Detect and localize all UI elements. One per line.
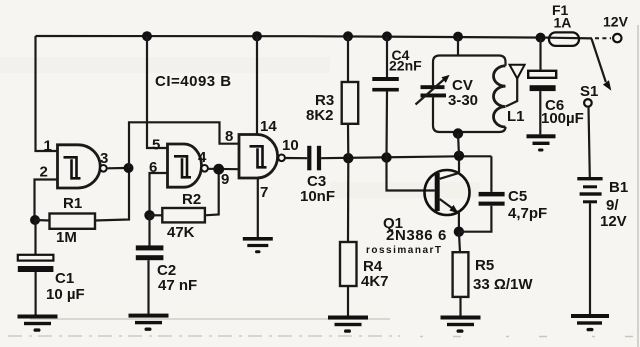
node emitter junction [454, 227, 464, 237]
pin 5 label [152, 137, 160, 154]
svg-text:22nF: 22nF [389, 58, 422, 74]
node R2/C2 junction [144, 210, 154, 220]
svg-text:10nF: 10nF [300, 188, 335, 205]
ground pin7 [243, 237, 273, 253]
wire tank bottom to collector node [458, 134, 459, 156]
svg-text:3-30: 3-30 [448, 92, 478, 109]
wire tank loop [433, 56, 506, 133]
pin 10 label [282, 137, 299, 154]
capacitor C5 [479, 188, 548, 222]
wire R2 right to pin9 node [205, 169, 219, 215]
pin 3 label [100, 150, 108, 167]
svg-text:33 Ω/1W: 33 Ω/1W [473, 276, 533, 293]
wire C5 top to collector node [490, 156, 492, 192]
wire C4 to node [385, 92, 388, 158]
svg-text:1: 1 [44, 138, 52, 155]
wire node to R1 left [35, 219, 50, 222]
wire base lead Q1 [387, 158, 435, 191]
battery B1 [577, 177, 628, 230]
wire gate1 output [107, 167, 125, 170]
resistor R4 [340, 242, 389, 290]
node top rail R3 drop [343, 31, 353, 41]
wire R1 right to feedback vertical [95, 168, 129, 221]
pin 6 label [149, 159, 157, 176]
node tank bottom junction [453, 128, 463, 138]
node top rail C4 drop [382, 31, 392, 41]
node top rail pin5 drop [142, 31, 152, 41]
wire left drop to pin1 [36, 36, 58, 151]
wire R5 bottom lead [459, 297, 461, 316]
wire dashed to 12V terminal [595, 37, 611, 39]
wire rail to pin5 [147, 36, 168, 148]
svg-text:CI=4093 B: CI=4093 B [155, 73, 232, 90]
svg-text:47 nF: 47 nF [158, 277, 197, 294]
wire pin2 to R1/C1 node [35, 180, 58, 221]
resistor R3 [306, 82, 358, 124]
pin 14 label [260, 118, 277, 135]
ground under B1 [571, 314, 609, 331]
wire R3 to node [347, 124, 349, 158]
wire rail to R3 [347, 36, 349, 82]
resistor R2 [162, 191, 205, 241]
ground under C6 [527, 134, 556, 151]
svg-text:3: 3 [100, 150, 108, 167]
wire gate2 output to pin9 [208, 168, 239, 171]
pin 4 label [198, 149, 207, 166]
op-amp U1b nand gate 2 [168, 144, 208, 187]
wire S1 to battery [589, 107, 590, 177]
svg-text:9: 9 [221, 171, 229, 188]
svg-text:R2: R2 [182, 191, 201, 208]
svg-text:9/: 9/ [606, 197, 619, 214]
node gate1 output [124, 163, 134, 173]
svg-text:rossimanarT: rossimanarT [366, 245, 443, 256]
svg-text:4K7: 4K7 [361, 273, 389, 290]
svg-text:4: 4 [198, 149, 207, 166]
svg-text:2: 2 [40, 164, 48, 181]
capacitor C3 [300, 146, 335, 205]
svg-text:4,7pF: 4,7pF [508, 205, 547, 222]
node R1/C1 junction [30, 215, 40, 225]
wire R4 top lead [347, 158, 349, 242]
svg-text:R1: R1 [63, 195, 82, 212]
wire emitter to C5 bottom [459, 206, 492, 232]
wire top rail [36, 36, 550, 38]
wire node to R2 left [150, 214, 163, 216]
capacitor C6 [528, 71, 584, 127]
wire rail to C6 [539, 38, 541, 71]
ground under R5 [441, 316, 481, 333]
node C4 bottom junction [381, 152, 391, 162]
wire C2 top lead [148, 215, 150, 245]
node top rail tank drop [453, 32, 463, 42]
resistor R1 [50, 195, 96, 246]
svg-text:5: 5 [152, 137, 160, 154]
terminal 12V [603, 14, 629, 43]
ground under R4 [328, 316, 368, 333]
svg-text:8K2: 8K2 [306, 107, 334, 124]
inductor L1 [494, 66, 525, 127]
svg-text:14: 14 [260, 118, 277, 135]
capacitor C1 [18, 255, 85, 303]
wire pin6 to R2/C2 node [150, 173, 168, 215]
wire R4 bottom lead [347, 286, 349, 316]
node collector junction [454, 151, 464, 161]
wire R5 top lead [459, 232, 460, 253]
pin 2 label [40, 164, 48, 181]
node top rail C6 drop [536, 33, 546, 43]
label CI=4093 B [155, 73, 232, 90]
pin 7 label [260, 184, 268, 201]
svg-text:2N386 6: 2N386 6 [386, 227, 447, 244]
node top rail pin14 drop [252, 31, 262, 41]
svg-text:1M: 1M [56, 229, 77, 246]
resistor R5 [453, 252, 534, 297]
svg-text:6: 6 [149, 159, 157, 176]
capacitor C4 [372, 47, 422, 92]
pin 9 label [221, 171, 229, 188]
pin 8 label [225, 128, 233, 145]
svg-text:100µF: 100µF [541, 110, 584, 127]
capacitor C2 [136, 245, 197, 294]
wire C6 bottom lead [539, 91, 541, 134]
wire battery to ground [589, 203, 591, 314]
antenna [506, 65, 525, 107]
svg-text:C1: C1 [55, 270, 74, 287]
svg-text:8: 8 [225, 128, 233, 145]
wire C2 bottom lead [147, 260, 149, 314]
transistor Q1 [383, 156, 470, 244]
ground under C2 [129, 314, 169, 331]
wire rail to tank top [457, 37, 459, 56]
wire rail to C4 [386, 36, 388, 77]
capacitor CV variable [416, 75, 479, 109]
svg-text:B1: B1 [609, 179, 628, 196]
svg-text:1A: 1A [554, 15, 572, 31]
wire rail to pin14 [256, 36, 258, 134]
wire pin7 to ground [257, 178, 259, 237]
svg-text:10: 10 [282, 137, 299, 154]
svg-text:7: 7 [260, 184, 268, 201]
wire C3 to collector node [321, 156, 491, 158]
fuse F1 [549, 2, 592, 46]
svg-text:L1: L1 [507, 108, 525, 125]
wire gate3 output to C3 [285, 157, 307, 159]
svg-text:R5: R5 [475, 257, 494, 274]
svg-text:12V: 12V [603, 14, 629, 30]
svg-text:10 µF: 10 µF [46, 286, 85, 303]
wire C1 bottom lead [34, 272, 36, 315]
svg-text:S1: S1 [580, 83, 598, 100]
wire feedback loop to pin8 [129, 122, 239, 168]
ground under C1 [18, 315, 58, 332]
pin 1 label [44, 138, 52, 155]
svg-text:47K: 47K [167, 224, 195, 241]
op-amp U1c nand gate 3 [239, 135, 285, 179]
node R3 bottom junction [343, 153, 353, 163]
op-amp U1a nand gate 1 [58, 145, 107, 188]
node pin9 junction [213, 164, 224, 175]
wire C1 top lead [34, 220, 36, 255]
svg-text:12V: 12V [600, 213, 627, 230]
svg-text:C5: C5 [508, 188, 527, 205]
switch S1 [580, 39, 611, 107]
